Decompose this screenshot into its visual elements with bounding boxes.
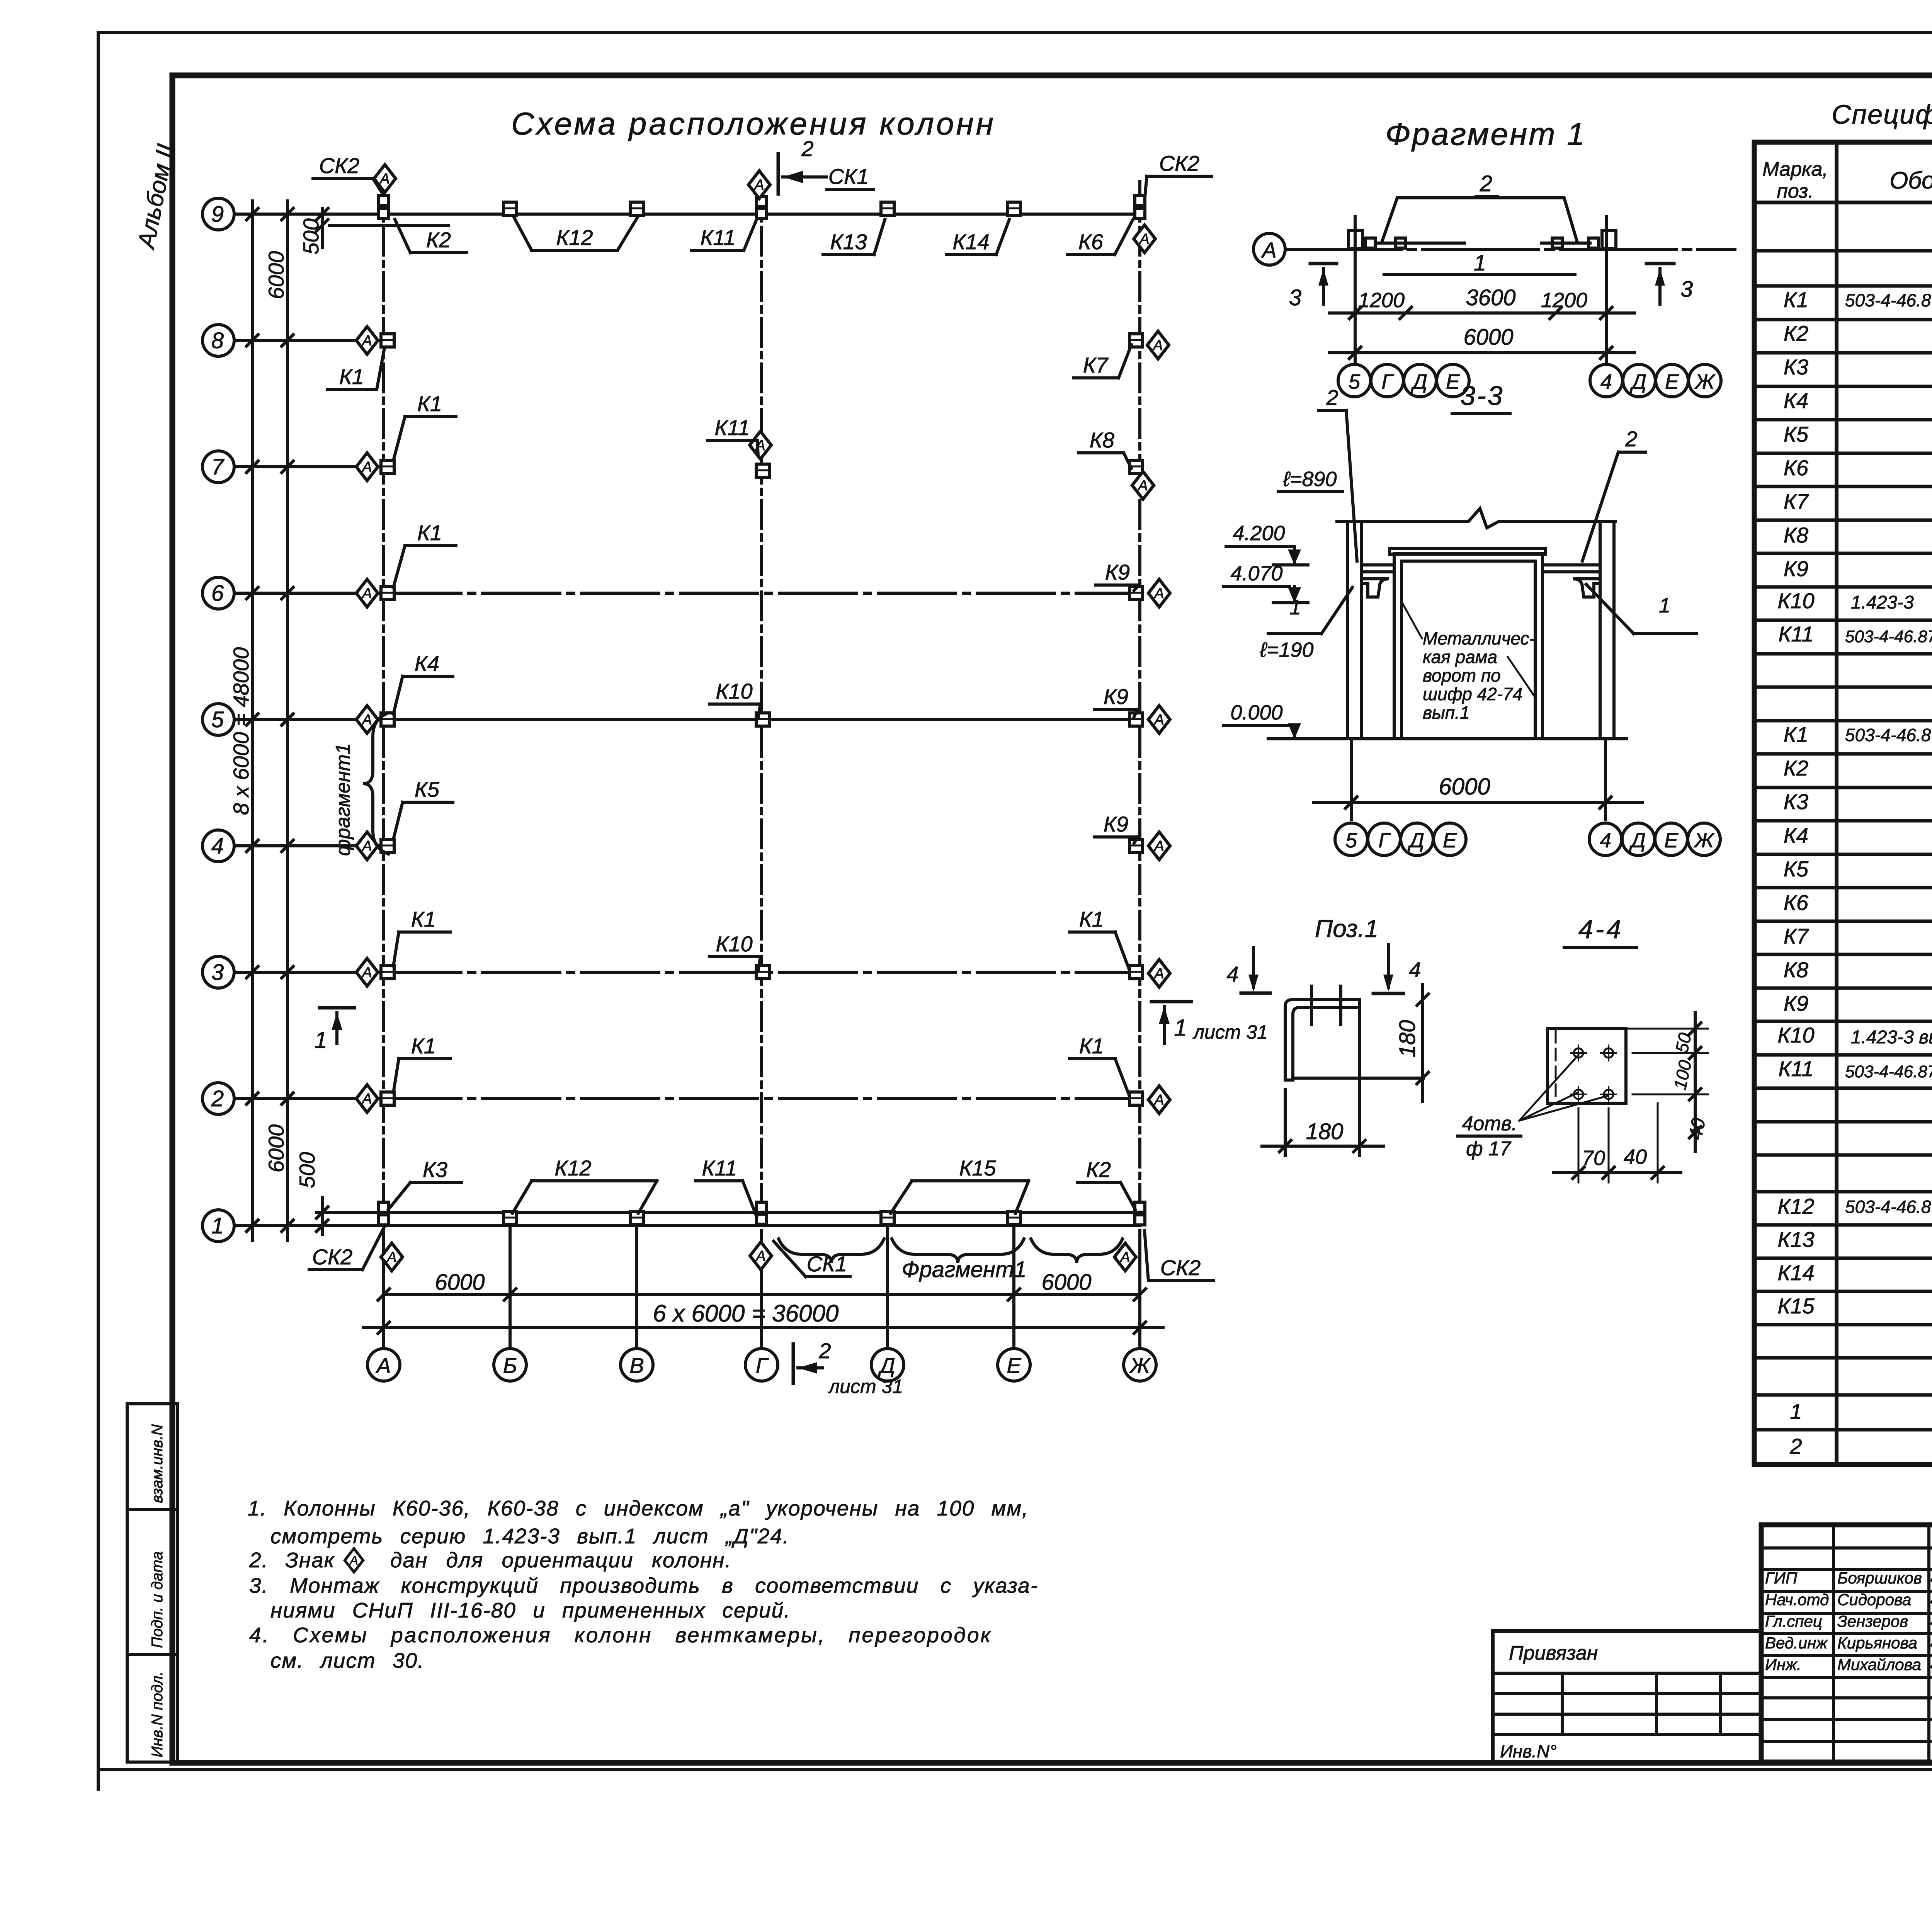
svg-text:К2: К2 xyxy=(1784,321,1808,345)
axis letter circle Е xyxy=(998,1349,1030,1381)
svg-text:К9: К9 xyxy=(1105,560,1130,584)
3-3 gate frame inner lines xyxy=(1400,561,1403,739)
4-4 right dim 50/100/40 xyxy=(1633,1052,1708,1054)
orientation diamond Ж row1 (below) xyxy=(1114,1243,1136,1271)
3-3 dim 6000 xyxy=(1350,739,1353,819)
svg-text:К11: К11 xyxy=(1778,622,1813,646)
svg-text:4.070: 4.070 xyxy=(1230,562,1282,585)
svg-text:К4: К4 xyxy=(1784,823,1808,847)
svg-text:6000: 6000 xyxy=(435,1270,485,1295)
svg-text:2: 2 xyxy=(1480,171,1492,196)
svg-text:503-4-46.87 -6КФ85-1-Н1: 503-4-46.87 -6КФ85-1-Н1 xyxy=(1845,1197,1932,1217)
svg-text:180: 180 xyxy=(1306,1119,1344,1144)
orientation diamond А top row9 xyxy=(374,165,396,192)
svg-text:Привязан: Привязан xyxy=(1509,1642,1598,1664)
orientation diamond А row2 xyxy=(356,1085,378,1112)
column square Ж row7 xyxy=(1129,460,1143,473)
svg-text:Подп. и дата: Подп. и дата xyxy=(149,1551,166,1648)
orientation diamond А row5 xyxy=(356,706,378,733)
fragment right column assembly xyxy=(1602,230,1616,249)
sheet outer border left tail xyxy=(97,1770,100,1789)
column square Б row1 xyxy=(503,1211,517,1225)
svg-text:4.200: 4.200 xyxy=(1233,522,1285,545)
left chain dim line 6000s xyxy=(286,201,289,1240)
svg-text:8 х 6000 = 48000: 8 х 6000 = 48000 xyxy=(229,647,253,815)
svg-text:К9: К9 xyxy=(1784,991,1808,1015)
svg-text:СК1: СК1 xyxy=(828,164,869,189)
column square Б row9 xyxy=(503,202,517,215)
fragment axis verticals xyxy=(1354,216,1357,364)
fragment dim line 1200/3600/1200 xyxy=(1329,311,1634,315)
row 1 edge line xyxy=(371,1211,1140,1214)
svg-text:70: 70 xyxy=(1582,1146,1605,1170)
fragment axis circle Д xyxy=(1623,364,1655,397)
axis Ж vertical dash-dot xyxy=(1138,182,1141,1348)
svg-text:2: 2 xyxy=(1625,427,1637,451)
svg-text:К10: К10 xyxy=(716,932,752,956)
fragment beam line between columns xyxy=(1376,242,1464,245)
svg-text:4-4: 4-4 xyxy=(1578,915,1623,944)
svg-text:К6: К6 xyxy=(1078,230,1104,254)
svg-text:К9: К9 xyxy=(1104,684,1128,709)
section mark 2/СК1 top xyxy=(777,154,780,194)
3-3 axis circle Е xyxy=(1434,823,1466,856)
svg-text:К4: К4 xyxy=(1784,388,1808,413)
svg-text:Д: Д xyxy=(1411,370,1427,393)
svg-text:Д: Д xyxy=(1408,829,1424,852)
4-4 plate xyxy=(1548,1029,1626,1103)
axis circle 1 xyxy=(202,1210,234,1242)
Поз.1 cut ticks xyxy=(1310,986,1313,1025)
svg-text:40: 40 xyxy=(1624,1145,1647,1169)
axis letter circle А xyxy=(367,1349,400,1381)
orientation diamond Ж row6 xyxy=(1148,579,1170,607)
svg-text:кая рама: кая рама xyxy=(1423,647,1497,667)
svg-text:5: 5 xyxy=(1349,370,1361,393)
row 2 leader line xyxy=(234,1097,384,1100)
svg-text:ворот по: ворот по xyxy=(1423,665,1501,685)
svg-text:К5: К5 xyxy=(1784,422,1809,446)
svg-text:3: 3 xyxy=(211,960,224,985)
svg-text:Фрагмент 1: Фрагмент 1 xyxy=(1385,117,1586,152)
column square Е row9 xyxy=(1007,202,1020,215)
column square Е row1 xyxy=(1007,1211,1020,1225)
svg-text:Ж: Ж xyxy=(1693,829,1715,852)
4-4 bottom dim 70/40 xyxy=(1578,1108,1580,1182)
svg-text:К5: К5 xyxy=(415,777,440,801)
svg-text:9: 9 xyxy=(211,202,224,227)
column square Ж row5 xyxy=(1129,713,1143,726)
note diamond symbol xyxy=(345,1548,363,1572)
orientation diamond Г row7 xyxy=(750,431,771,459)
row 7 leader line xyxy=(234,465,386,468)
svg-text:К12: К12 xyxy=(1777,1194,1814,1218)
svg-text:лист 31: лист 31 xyxy=(1192,1021,1268,1043)
svg-text:Сидорова: Сидорова xyxy=(1837,1590,1911,1609)
row 2 axis dash-dot xyxy=(384,1097,1140,1100)
fragment axis circle Г xyxy=(1371,364,1403,397)
svg-text:К12: К12 xyxy=(556,225,593,250)
svg-text:3. Монтаж конструкций произв: 3. Монтаж конструкций производить в соот… xyxy=(249,1573,1038,1597)
column square А row7 xyxy=(381,460,394,473)
svg-text:К1: К1 xyxy=(339,364,364,389)
svg-text:6: 6 xyxy=(211,581,224,606)
3-3 gate frame outer xyxy=(1394,554,1543,739)
svg-text:К13: К13 xyxy=(830,230,867,254)
section mark 2 лист 31 bottom xyxy=(792,1344,795,1383)
svg-text:180: 180 xyxy=(1395,1020,1420,1058)
row 1 axis line xyxy=(234,1224,1140,1227)
svg-text:Г: Г xyxy=(756,1353,769,1378)
row 3 leader line xyxy=(234,971,384,974)
orientation diamond А row6 xyxy=(356,579,378,607)
3-3 connecting beam at 4.200 xyxy=(1362,563,1600,566)
svg-text:СК2: СК2 xyxy=(312,1245,353,1269)
axis Г extension to circle xyxy=(760,1238,763,1348)
svg-text:К1: К1 xyxy=(1784,287,1808,312)
svg-text:К7: К7 xyxy=(1083,353,1109,377)
svg-text:6000: 6000 xyxy=(1439,774,1490,799)
svg-text:А: А xyxy=(375,1353,391,1378)
svg-text:2: 2 xyxy=(801,136,813,161)
orientation diamond Ж row7 (below) xyxy=(1132,471,1154,499)
fragment axis circle А xyxy=(1253,233,1285,265)
row 4 leader line xyxy=(234,844,386,847)
bottom total dim line xyxy=(363,1326,1163,1329)
svg-text:1.423-3 вып.1: 1.423-3 вып.1 xyxy=(1851,1027,1932,1048)
svg-text:2: 2 xyxy=(211,1086,224,1111)
svg-text:К4: К4 xyxy=(415,651,439,675)
section mark 1 right (лист 31) xyxy=(1151,1000,1191,1004)
svg-text:Бояршиков: Бояршиков xyxy=(1837,1569,1922,1587)
column square А row5 xyxy=(381,713,394,726)
axis letter circle Ж xyxy=(1124,1349,1156,1381)
svg-text:503-4-46.87КЖИ-: 503-4-46.87КЖИ- xyxy=(1845,627,1932,646)
column К11 squares at Г row9 xyxy=(757,197,767,207)
axis circle 6 xyxy=(202,577,234,609)
column square Ж row6 xyxy=(1129,587,1143,600)
axis circle 9 xyxy=(202,198,234,230)
axis A vertical dash-dot xyxy=(382,182,385,1348)
svg-text:СК2: СК2 xyxy=(1160,1255,1201,1280)
svg-text:Вед.инж: Вед.инж xyxy=(1765,1634,1828,1652)
fragment dim line 6000 xyxy=(1329,351,1634,354)
svg-text:Кирьянова: Кирьянова xyxy=(1837,1634,1917,1652)
column square Ж row2 xyxy=(1129,1092,1143,1105)
axis letter circle Б xyxy=(494,1349,526,1381)
svg-text:503-4-46.87-КЖИ-: 503-4-46.87-КЖИ- xyxy=(1845,1062,1932,1081)
axis Д extension to circle xyxy=(886,1238,889,1348)
svg-text:СК2: СК2 xyxy=(1159,151,1200,175)
svg-text:Поз.1: Поз.1 xyxy=(1315,915,1378,942)
svg-text:Марка,: Марка, xyxy=(1762,158,1828,180)
svg-text:К3: К3 xyxy=(1784,355,1808,379)
fragment beam 2 trapezoid xyxy=(1382,198,1577,242)
fragment brace xyxy=(779,1239,884,1263)
3-3 left column xyxy=(1346,522,1349,739)
axis В extension to circle xyxy=(635,1238,638,1348)
orientation diamond Ж row3 xyxy=(1148,959,1170,987)
svg-text:Инв.N°: Инв.N° xyxy=(1500,1741,1557,1761)
svg-text:Ж: Ж xyxy=(1129,1353,1151,1378)
axis letter circle В xyxy=(621,1349,653,1381)
left 500 dim ticks bottom xyxy=(321,1198,324,1235)
svg-text:500: 500 xyxy=(295,1152,319,1188)
svg-text:6000: 6000 xyxy=(264,251,288,299)
svg-text:К1: К1 xyxy=(1784,722,1808,747)
fragment axis circle Е xyxy=(1437,364,1469,397)
orientation diamond А row1 (below) xyxy=(381,1243,403,1271)
svg-text:К1: К1 xyxy=(411,1034,436,1058)
axis Ж extension to circle xyxy=(1138,1238,1141,1348)
svg-text:Д: Д xyxy=(1630,370,1646,393)
svg-text:К12: К12 xyxy=(554,1156,591,1180)
svg-text:К15: К15 xyxy=(959,1156,996,1180)
fragment axis circle Е xyxy=(1656,364,1688,397)
spec table column line x=4753 xyxy=(1835,142,1838,1465)
orientation diamond А row7 xyxy=(356,453,378,481)
svg-text:В: В xyxy=(629,1353,644,1378)
svg-text:К1: К1 xyxy=(417,391,442,416)
row 6 axis dash-dot xyxy=(384,592,1140,595)
svg-text:3: 3 xyxy=(1289,285,1301,310)
svg-text:4: 4 xyxy=(1226,962,1238,986)
svg-text:К1: К1 xyxy=(1079,1034,1104,1058)
4-4 holes xyxy=(1571,1045,1586,1061)
svg-text:Зензеров: Зензеров xyxy=(1837,1612,1908,1630)
column square Д row9 xyxy=(881,202,894,215)
orientation diamond Г row9 xyxy=(748,171,770,199)
svg-text:1.423-3: 1.423-3 xyxy=(1851,592,1914,613)
axis В bottom stub xyxy=(635,1229,638,1348)
axis circle 3 xyxy=(202,956,234,988)
column СК2/К2 squares at Ж row1 xyxy=(1135,1202,1145,1212)
svg-text:К3: К3 xyxy=(423,1157,447,1182)
column square В row9 xyxy=(630,202,643,215)
svg-text:40: 40 xyxy=(1684,1116,1709,1141)
title block outer xyxy=(1761,1525,1932,1762)
svg-text:ф 17: ф 17 xyxy=(1466,1138,1512,1160)
svg-text:2: 2 xyxy=(1789,1434,1802,1458)
axis Е extension to circle xyxy=(1012,1238,1015,1348)
svg-text:1: 1 xyxy=(314,1027,327,1053)
3-3 text leader to left post xyxy=(1403,604,1422,638)
svg-text:Ж: Ж xyxy=(1694,370,1716,393)
svg-text:3-3: 3-3 xyxy=(1460,381,1504,411)
3-3 axis circle Ж xyxy=(1688,823,1720,856)
axis circle 4 xyxy=(202,830,234,862)
svg-text:К6: К6 xyxy=(1784,890,1809,915)
svg-text:К2: К2 xyxy=(1086,1157,1111,1182)
svg-text:0.000: 0.000 xyxy=(1230,701,1282,724)
svg-text:СК2: СК2 xyxy=(319,153,360,178)
orientation diamond Ж row9 xyxy=(1134,225,1155,253)
svg-text:К9: К9 xyxy=(1784,556,1808,581)
4-4 hole leaders xyxy=(1519,1055,1578,1121)
column square А row4 xyxy=(381,839,394,852)
svg-text:1: 1 xyxy=(211,1213,224,1238)
svg-text:К1: К1 xyxy=(411,907,436,931)
svg-text:Е: Е xyxy=(1446,370,1460,393)
svg-text:4отв.: 4отв. xyxy=(1462,1112,1517,1135)
fragment brace xyxy=(892,1239,1024,1263)
svg-text:К8: К8 xyxy=(1784,523,1808,547)
column square А row8 xyxy=(381,334,394,347)
svg-text:К11: К11 xyxy=(700,225,735,250)
spec table outer box xyxy=(1754,142,1932,1465)
column СК2/К6 squares at Ж row9 xyxy=(1135,196,1145,206)
svg-text:503-4-46.87-КЖИ-: 503-4-46.87-КЖИ- xyxy=(1845,290,1932,310)
svg-text:взам.инв.N: взам.инв.N xyxy=(149,1424,166,1503)
svg-text:503-4-46.87-КЖИ-: 503-4-46.87-КЖИ- xyxy=(1845,725,1932,745)
fragment section mark 3 left xyxy=(1310,262,1337,265)
svg-text:3600: 3600 xyxy=(1466,285,1515,310)
svg-text:см. лист 30.: см. лист 30. xyxy=(270,1648,424,1672)
column square А row2 xyxy=(381,1092,394,1105)
row 8 leader line xyxy=(234,339,386,342)
orientation diamond А row4 xyxy=(356,832,378,860)
svg-text:Фрагмент1: Фрагмент1 xyxy=(901,1257,1026,1282)
svg-text:ℓ=190: ℓ=190 xyxy=(1259,638,1313,662)
3-3 axis circle Е xyxy=(1655,823,1687,856)
axis Б extension to circle xyxy=(509,1238,512,1348)
axis circle 7 xyxy=(202,451,234,483)
orientation diamond А row3 xyxy=(356,958,378,986)
svg-text:1. Колонны К60-36, К60-38 с и: 1. Колонны К60-36, К60-38 с индексом „а"… xyxy=(248,1496,1029,1520)
svg-text:К14: К14 xyxy=(952,230,989,254)
axis circle 8 xyxy=(202,325,234,356)
orientation diamond А row8 xyxy=(356,327,378,354)
svg-text:Гл.спец: Гл.спец xyxy=(1765,1612,1822,1630)
svg-text:фрагмент1: фрагмент1 xyxy=(332,743,354,856)
svg-text:К6: К6 xyxy=(1784,456,1809,480)
svg-text:6000: 6000 xyxy=(1463,325,1513,350)
Поз.1 section mark 4 right xyxy=(1387,945,1390,988)
svg-text:2. Знак: 2. Знак xyxy=(249,1548,335,1572)
fragment axis circle 5 xyxy=(1338,364,1371,397)
fragment axis circle Д xyxy=(1404,364,1436,397)
Поз.1 angle profile xyxy=(1285,1000,1357,1080)
svg-text:Обозначение: Обозначение xyxy=(1889,167,1932,194)
title block signature column lines xyxy=(1832,1525,1835,1762)
svg-text:К5: К5 xyxy=(1784,857,1809,881)
left total dim line 48000 xyxy=(251,201,254,1240)
svg-text:Д: Д xyxy=(1629,829,1646,852)
3-3 right column xyxy=(1599,522,1602,739)
3-3 axis circle 5 xyxy=(1335,823,1367,856)
column СК2/К3 squares at А row1 xyxy=(379,1202,389,1212)
row 3 axis dash-dot xyxy=(384,971,1140,974)
svg-text:Схема расположения колонн: Схема расположения колонн xyxy=(511,106,996,141)
svg-text:1: 1 xyxy=(1474,250,1486,276)
svg-text:2: 2 xyxy=(818,1339,831,1363)
svg-text:5: 5 xyxy=(211,707,224,732)
svg-text:Спецификация к схеме располож: Спецификация к схеме расположения колонн xyxy=(1832,99,1932,129)
fragment left column assembly xyxy=(1349,230,1362,249)
svg-text:6 х 6000 = 36000: 6 х 6000 = 36000 xyxy=(653,1300,839,1327)
svg-text:4: 4 xyxy=(211,833,224,859)
svg-text:6000: 6000 xyxy=(1041,1270,1091,1295)
axis letter circle Г xyxy=(745,1349,778,1381)
row 6 leader line xyxy=(234,592,384,595)
svg-text:К8: К8 xyxy=(1784,958,1808,982)
column square В row1 xyxy=(630,1211,643,1225)
svg-text:4. Схемы расположения колонн: 4. Схемы расположения колонн венткамеры,… xyxy=(249,1623,992,1647)
orientation diamond Ж row2 xyxy=(1148,1086,1170,1114)
title block signature rows xyxy=(1761,1546,1932,1550)
svg-text:К10: К10 xyxy=(1777,1023,1814,1047)
column square Ж row8 xyxy=(1129,334,1143,347)
fragment axis circle Ж xyxy=(1689,364,1721,397)
row 5 axis line xyxy=(234,718,1140,721)
left 500 dim ticks top xyxy=(321,209,324,247)
svg-text:Е: Е xyxy=(1007,1353,1021,1378)
axis circle 5 xyxy=(202,704,234,735)
svg-text:2: 2 xyxy=(1326,385,1338,410)
spec table header row line xyxy=(1754,201,1932,204)
svg-text:К11: К11 xyxy=(1778,1056,1813,1081)
Поз.1 dim 180 right xyxy=(1421,985,1424,1101)
svg-text:К1: К1 xyxy=(1079,907,1104,931)
svg-text:4: 4 xyxy=(1600,829,1611,852)
axis Д bottom stub xyxy=(886,1229,889,1348)
column square А row6 xyxy=(381,587,394,600)
svg-text:К2: К2 xyxy=(1784,756,1808,780)
column К11 square at Г row7 xyxy=(756,464,769,477)
svg-text:Инв.N подл.: Инв.N подл. xyxy=(149,1671,166,1757)
svg-text:1: 1 xyxy=(1289,596,1301,619)
svg-text:К9: К9 xyxy=(1104,812,1128,836)
привязан block xyxy=(1493,1631,1761,1762)
svg-text:К15: К15 xyxy=(1777,1294,1815,1318)
axis Г vertical dash-dot xyxy=(760,182,763,1348)
axis circle 2 xyxy=(202,1083,234,1114)
3-3 right corbel xyxy=(1573,579,1600,597)
svg-text:1: 1 xyxy=(1659,594,1670,617)
3-3 ground line xyxy=(1268,737,1626,740)
svg-text:шифр 42-74: шифр 42-74 xyxy=(1423,684,1522,704)
svg-text:4: 4 xyxy=(1409,957,1421,981)
svg-text:К7: К7 xyxy=(1784,489,1809,514)
svg-text:К10: К10 xyxy=(716,679,752,703)
svg-text:К8: К8 xyxy=(1090,428,1114,452)
svg-text:К14: К14 xyxy=(1777,1260,1814,1285)
svg-text:К3: К3 xyxy=(1784,789,1808,814)
3-3 left corbel xyxy=(1362,579,1389,597)
column СК2/К2 squares at А row9 xyxy=(379,196,389,206)
svg-text:вып.1: вып.1 xyxy=(1423,703,1470,723)
svg-text:К1: К1 xyxy=(417,520,442,545)
svg-text:6000: 6000 xyxy=(264,1124,288,1173)
svg-text:8: 8 xyxy=(211,328,224,353)
3-3 gate top cap xyxy=(1389,549,1546,554)
svg-text:К7: К7 xyxy=(1784,924,1809,948)
svg-text:смотреть серию 1.423-3 вып.1: смотреть серию 1.423-3 вып.1 лист „Д"24. xyxy=(270,1524,789,1548)
fragment brace xyxy=(1031,1239,1122,1263)
3-3 axis circle Д xyxy=(1401,823,1433,856)
orientation diamond Ж row8 xyxy=(1147,331,1169,359)
bottom chain dim line xyxy=(384,1293,1140,1296)
svg-text:Г: Г xyxy=(1378,829,1391,852)
svg-text:Инж.: Инж. xyxy=(1765,1655,1801,1674)
svg-text:А: А xyxy=(349,1553,358,1567)
row 9 axis line xyxy=(234,213,1140,216)
axis Б bottom stub xyxy=(509,1229,512,1348)
column square Ж row3 xyxy=(1129,966,1143,979)
3-3 axis circle Г xyxy=(1368,823,1400,856)
svg-text:3: 3 xyxy=(1680,277,1693,302)
fragment axis А line xyxy=(1285,248,1735,251)
